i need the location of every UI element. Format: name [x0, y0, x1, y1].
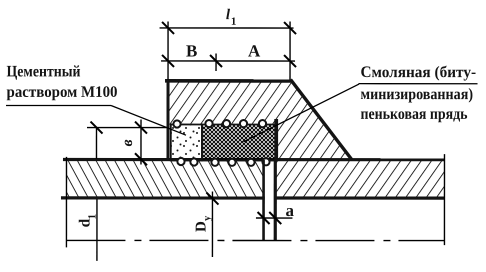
extension line right (x=290) — [289, 22, 291, 80]
right pipe broken end edge — [443, 154, 445, 245]
dimension v extension line horizontal — [87, 127, 166, 129]
leader line cement (diagonal) — [111, 106, 186, 136]
leader line hemp (underline) — [359, 83, 478, 85]
tick a left — [258, 212, 270, 224]
caulk right edge — [274, 119, 278, 161]
dimension v vertical line 2 — [140, 119, 142, 164]
right pipe bell section (hatched) — [166, 80, 444, 198]
label d1 (rotated) — [76, 214, 98, 228]
svg-text:1: 1 — [86, 214, 98, 220]
left pipe wall section (hatched) — [66, 160, 263, 198]
dimension B/A line — [161, 60, 295, 62]
spigot end face (gap left wall) — [262, 160, 265, 240]
right pipe inner wall line — [274, 196, 445, 199]
svg-text:B: B — [186, 41, 197, 60]
leader line hemp (diagonal) — [243, 84, 359, 142]
tick BA right — [284, 55, 296, 67]
dimension d1 extension line — [96, 199, 98, 260]
tick l1 left — [162, 22, 174, 34]
caulk top bumps — [173, 120, 266, 128]
hemp strand seal (crosshatched) — [202, 124, 276, 160]
leader line cement (horizontal) — [6, 104, 111, 106]
bell top line — [165, 79, 292, 83]
tick BA left — [162, 55, 174, 67]
tick v2 top — [135, 122, 147, 134]
left pipe broken end edge — [65, 157, 67, 247]
tick v1 top — [90, 122, 102, 134]
svg-text:минизированная): минизированная) — [361, 86, 474, 103]
cement mortar seal (stippled) — [171, 124, 202, 160]
bell slope — [290, 80, 352, 160]
svg-text:D: D — [193, 221, 209, 232]
dimension v vertical line 1 — [95, 128, 97, 159]
svg-text:раствором М100: раствором М100 — [7, 84, 118, 101]
svg-text:пеньковая прядь: пеньковая прядь — [361, 106, 468, 123]
tick BA middle — [210, 55, 222, 67]
tick Dy — [206, 193, 218, 205]
bell shoulder face (gap right wall) — [274, 160, 277, 240]
dimension l1 line — [160, 27, 294, 29]
extension line left (x=168) — [167, 21, 169, 79]
svg-text:Цементный: Цементный — [7, 63, 81, 80]
label Dy (rotated) — [193, 215, 213, 232]
svg-text:A: A — [248, 42, 261, 61]
left pipe inner wall line — [61, 196, 265, 199]
tick v2 bottom — [135, 153, 147, 165]
extension line middle (x=216) — [215, 53, 217, 70]
tick l1 right — [284, 22, 296, 34]
centerline (dash-dot axis) — [66, 239, 444, 241]
tick a right — [269, 212, 281, 224]
svg-text:y: y — [202, 215, 213, 221]
dimension Dy extension line — [211, 191, 213, 256]
caulk bottom bumps — [177, 158, 269, 166]
pipe outer surface line — [63, 158, 445, 161]
bell left face — [166, 79, 169, 161]
svg-text:1: 1 — [231, 16, 237, 28]
dimension a line — [256, 217, 293, 219]
svg-text:в: в — [119, 139, 136, 146]
svg-text:Смоляная (биту-: Смоляная (биту- — [361, 64, 477, 81]
svg-text:a: a — [285, 201, 294, 220]
